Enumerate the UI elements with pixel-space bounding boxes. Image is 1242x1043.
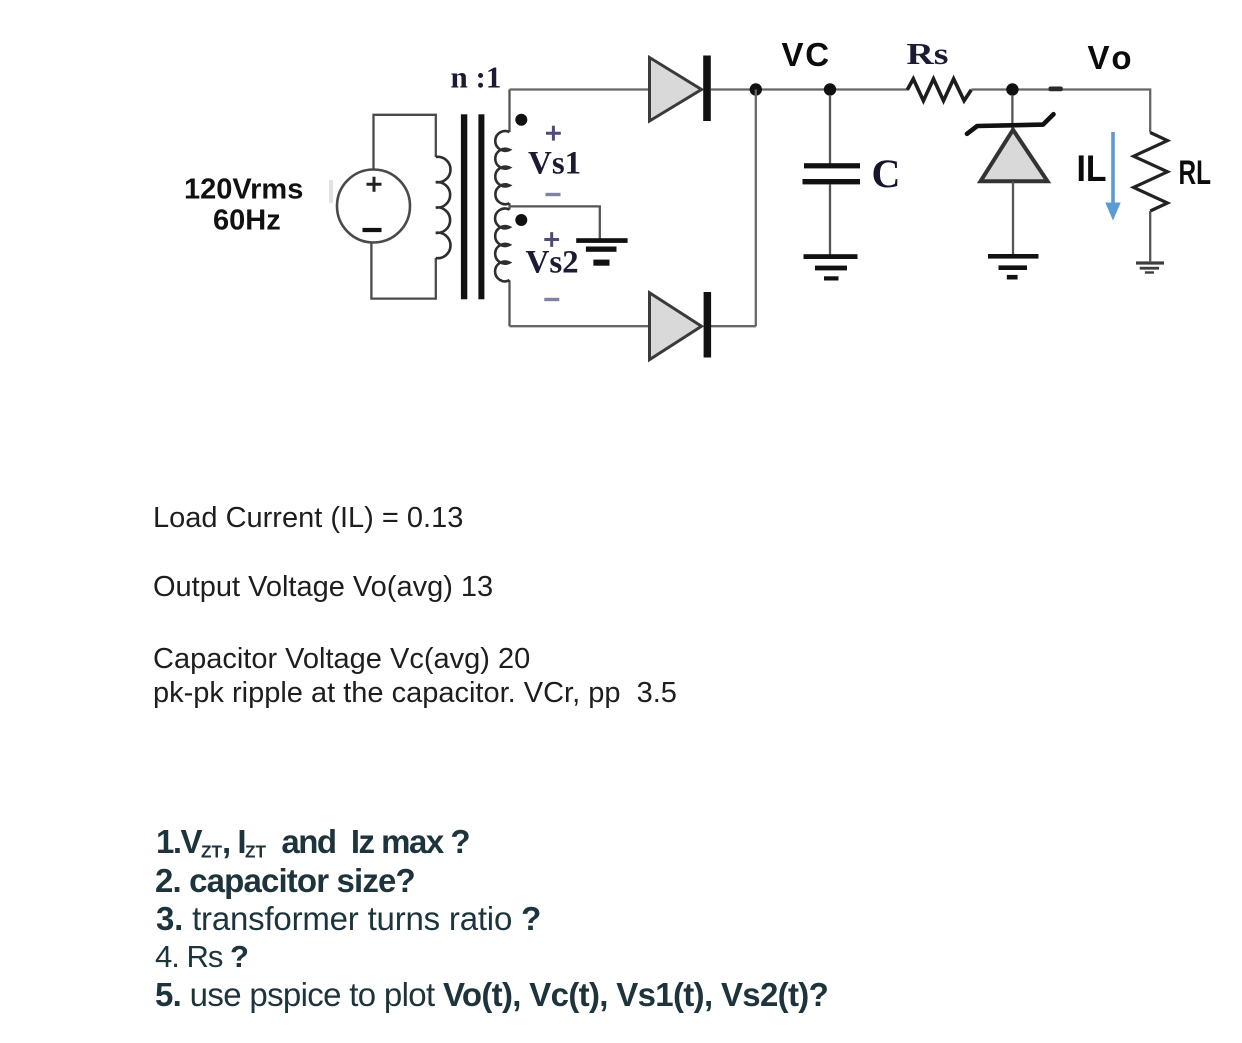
svg-text:RL: RL — [1179, 154, 1212, 192]
polarity - of Vs2 — [544, 298, 559, 301]
svg-text:60Hz: 60Hz — [213, 205, 281, 237]
svg-text:Vo: Vo — [1088, 39, 1132, 76]
wire secondary bottom to diode D2 — [510, 325, 756, 327]
stray gray mark after 120Vrms — [329, 180, 333, 203]
diode D2 — [650, 292, 712, 360]
polarity - of Vs1 — [546, 193, 561, 196]
ground capacitor — [804, 254, 858, 280]
svg-text:120Vrms: 120Vrms — [184, 173, 303, 205]
capacitor C plates — [803, 163, 861, 184]
wire primary loop — [371, 115, 435, 299]
node junction 1 — [750, 83, 762, 95]
svg-text:Rs: Rs — [907, 36, 949, 71]
wire secondary vertical — [508, 90, 510, 327]
question 4 — [155, 940, 248, 974]
text pk-pk ripple — [153, 678, 677, 708]
node junction zener — [1006, 83, 1018, 95]
ground zener — [988, 254, 1039, 280]
svg-text:n :1: n :1 — [451, 60, 502, 95]
dash mark on wire — [1049, 87, 1063, 92]
wire Rs to Vo corner — [971, 90, 1150, 133]
wire rectifier right vertical — [755, 90, 757, 327]
zener diode DZ — [967, 114, 1054, 181]
inductor secondary winding Vs1 — [495, 131, 509, 204]
question 1 — [156, 825, 469, 868]
inductor secondary winding Vs2 — [495, 209, 509, 282]
current arrow IL — [1105, 132, 1120, 221]
polarity + of Vs1 — [546, 126, 561, 141]
question 5 — [155, 978, 828, 1012]
wire capacitor bottom lead — [829, 184, 831, 254]
resistor RL zigzag — [1134, 133, 1168, 212]
wire secondary top to diode D1 — [510, 88, 650, 90]
wire zener bottom lead — [1012, 181, 1014, 254]
text Output Voltage — [153, 572, 493, 602]
svg-text:Vs1: Vs1 — [528, 145, 581, 181]
voltage source VS (AC source circle) — [337, 170, 410, 243]
svg-text:Vs2: Vs2 — [526, 245, 579, 281]
phase dot bottom — [515, 214, 527, 226]
svg-text:C: C — [872, 151, 901, 196]
svg-text:IL: IL — [1077, 148, 1107, 189]
question 2 — [155, 864, 415, 898]
question 3 — [156, 902, 541, 936]
text Capacitor Voltage — [153, 644, 530, 674]
label 120Vrms 60Hz — [184, 173, 303, 236]
inductor primary winding — [436, 157, 451, 258]
text Load Current — [153, 503, 463, 533]
polarity + of Vs2 — [544, 232, 559, 247]
wire center tap — [510, 206, 600, 239]
phase dot top — [515, 114, 527, 126]
wire capacitor top lead — [829, 95, 831, 164]
svg-text:VC: VC — [782, 36, 831, 73]
wire RL bottom lead — [1149, 211, 1151, 261]
wire zener top stub — [1011, 95, 1013, 129]
wire D1 to Rs — [711, 88, 908, 90]
node junction 2 (VC) — [824, 83, 836, 95]
resistor Rs zigzag — [907, 79, 971, 101]
ground center tap — [576, 238, 627, 266]
transformer core bars — [461, 114, 467, 299]
ground RL — [1136, 261, 1164, 273]
diode D1 — [650, 56, 711, 122]
